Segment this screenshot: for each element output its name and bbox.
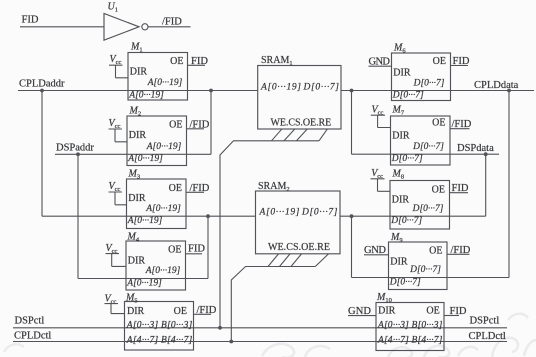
ground GND for M6	[369, 57, 392, 68]
wire SRAM1 control bus slash marks	[272, 129, 328, 141]
svg-text:DIR: DIR	[393, 67, 411, 78]
ground GND for M9	[364, 245, 389, 256]
svg-text:FID: FID	[22, 14, 39, 25]
svg-text:OE: OE	[429, 246, 442, 257]
wire M9 bus	[352, 277, 510, 279]
svg-text:OE: OE	[168, 245, 181, 256]
junction SRAM1 D / M7 rail	[350, 89, 354, 93]
transceiver M6	[392, 42, 451, 100]
transceiver M3	[127, 168, 187, 228]
svg-text:FID: FID	[188, 243, 205, 254]
wire SRAM2 control bus slash marks	[268, 254, 329, 267]
wire SRAM2 control bus to CPLDctl	[231, 267, 315, 342]
svg-text:DSPdata: DSPdata	[457, 143, 494, 154]
wire SRAM1 control bus to DSPctl	[220, 141, 319, 328]
wire M7 bus to DSPdata	[352, 153, 500, 155]
wire M8 riser to DSPdata	[485, 154, 487, 216]
transceiver M5 (control)	[125, 292, 194, 350]
svg-text:OE: OE	[432, 118, 445, 129]
wire SRAM1 D bus through M6 to CPLDdata	[341, 90, 534, 92]
svg-text:DIR: DIR	[130, 66, 148, 77]
svg-text:FID: FID	[453, 56, 470, 67]
svg-text:OE: OE	[174, 306, 187, 317]
svg-text:A[0···19]: A[0···19]	[126, 278, 162, 288]
ground GND for M10	[348, 306, 376, 317]
wire U1 output	[148, 26, 190, 28]
svg-text:CPLDaddr: CPLDaddr	[19, 79, 65, 90]
junction CPLDaddr rail	[40, 89, 44, 93]
svg-text:A[0···3] B[0···3]: A[0···3] B[0···3]	[126, 320, 193, 330]
pin OE of M6, net FID	[451, 56, 470, 67]
svg-text:D[0···7]: D[0···7]	[392, 91, 424, 101]
wire CPLDctl line through M5 and M10	[13, 341, 507, 343]
pin OE of M5, net /FID	[194, 305, 217, 316]
power Vcc for M5	[105, 293, 125, 313]
svg-text:A[0···19]: A[0···19]	[147, 78, 183, 88]
pin OE of M7, net /FID	[450, 119, 472, 130]
svg-text:WE.CS.OE.RE: WE.CS.OE.RE	[268, 242, 330, 253]
svg-text:/FID: /FID	[197, 305, 217, 316]
wire CPLDaddr bus through M1 to SRAM1 A	[18, 90, 258, 92]
svg-text:/FID: /FID	[190, 183, 210, 194]
svg-text:A[0···19]: A[0···19]	[260, 82, 301, 92]
wire SRAM2 D rail down to M9	[351, 216, 353, 277]
svg-text:SRAM2: SRAM2	[258, 181, 290, 193]
svg-text:D[0···7]: D[0···7]	[390, 216, 422, 226]
transceiver M8	[390, 168, 450, 229]
wire DSPaddr bus through M2	[55, 153, 211, 155]
SRAM2	[256, 181, 341, 254]
svg-text:DSPctl: DSPctl	[15, 315, 45, 326]
wire M3 bus to SRAM2 A	[42, 215, 256, 217]
pin OE of M4, net FID	[186, 243, 206, 254]
svg-text:CPLDctl: CPLDctl	[469, 331, 506, 342]
power Vcc for M2	[109, 118, 128, 142]
svg-text:DIR: DIR	[392, 194, 410, 205]
power Vcc for M4	[106, 243, 127, 266]
SRAM1	[258, 55, 341, 129]
svg-text:D[0···7]: D[0···7]	[391, 154, 423, 164]
svg-text:D[0···7]: D[0···7]	[412, 142, 444, 152]
svg-text:/FID: /FID	[452, 119, 472, 130]
svg-text:FID: FID	[452, 183, 469, 194]
svg-text:DIR: DIR	[128, 255, 146, 266]
svg-text:DIR: DIR	[390, 256, 408, 267]
wire CPLDaddr rail down to M3	[41, 91, 43, 217]
transceiver M10 (control)	[376, 292, 444, 351]
wire M4 bus	[78, 278, 208, 280]
svg-text:A[0···19]: A[0···19]	[128, 90, 164, 100]
pin OE of M2, net /FID	[187, 119, 210, 130]
svg-text:OE: OE	[433, 56, 446, 67]
junction DSPaddr rail	[76, 152, 80, 156]
pin OE of M9, net /FID	[447, 245, 471, 256]
pin OE of M3, net /FID	[186, 183, 210, 194]
svg-text:A[0···19]: A[0···19]	[145, 204, 181, 214]
svg-text:A[0···19]: A[0···19]	[146, 142, 182, 152]
transceiver M1	[128, 41, 188, 100]
svg-text:DIR: DIR	[128, 193, 146, 204]
junction CPLDdata rail	[507, 89, 511, 93]
svg-text:DIR: DIR	[378, 305, 396, 316]
power Vcc for M1	[109, 54, 128, 78]
svg-text:DIR: DIR	[127, 306, 145, 317]
svg-text:D[0···7]: D[0···7]	[303, 82, 340, 92]
junction SRAM2 D / M9 rail	[350, 214, 354, 218]
svg-text:OE: OE	[170, 56, 183, 67]
wire DSPctl line through M5 and M10	[13, 327, 507, 329]
svg-text:SRAM1: SRAM1	[261, 55, 293, 67]
svg-text:WE.CS.OE.RE: WE.CS.OE.RE	[271, 118, 332, 129]
svg-text:A[0···19]: A[0···19]	[127, 216, 163, 226]
svg-text:D[0···7]: D[0···7]	[412, 204, 444, 214]
svg-text:OE: OE	[169, 120, 182, 131]
svg-text:DSPaddr: DSPaddr	[56, 142, 94, 153]
svg-text:DIR: DIR	[392, 130, 410, 141]
svg-text:D[0···7]: D[0···7]	[409, 265, 441, 275]
inverter U1	[104, 2, 148, 41]
transceiver M9	[389, 232, 448, 290]
junction SRAM2 ctl on CPLDctl line	[229, 340, 233, 344]
svg-text:FID: FID	[450, 306, 467, 317]
pin OE of M10, net FID	[444, 306, 467, 317]
junction M4 riser on SRAM2 A bus	[206, 214, 210, 218]
svg-text:A[0···19]: A[0···19]	[145, 266, 181, 276]
svg-text:A[0···19]: A[0···19]	[127, 154, 163, 164]
svg-text:A[0···3] B[0···3]: A[0···3] B[0···3]	[377, 320, 443, 330]
junction M2 riser on SRAM1 A bus	[209, 89, 213, 93]
power Vcc for M7	[371, 104, 391, 127]
svg-text:A[4···7] B[4···7]: A[4···7] B[4···7]	[126, 335, 193, 345]
svg-text:OE: OE	[169, 183, 182, 194]
svg-text:/FID: /FID	[190, 119, 210, 130]
svg-text:D[0···7]: D[0···7]	[301, 208, 338, 218]
junction SRAM1 ctl on DSPctl line	[218, 326, 222, 330]
power Vcc for M3	[109, 181, 127, 205]
wire DSPaddr rail down to M4	[77, 154, 79, 278]
svg-text:DSPctl: DSPctl	[470, 316, 500, 327]
svg-text:DIR: DIR	[129, 130, 147, 141]
svg-text:FID: FID	[191, 56, 208, 67]
wire FID input to U1	[20, 26, 104, 28]
pin OE of M1, net FID	[188, 56, 209, 67]
transceiver M2	[127, 105, 187, 165]
svg-text:/FID: /FID	[451, 245, 471, 256]
transceiver M7	[391, 104, 451, 165]
svg-text:D[0···7]: D[0···7]	[389, 277, 421, 287]
svg-text:A[0···19]: A[0···19]	[259, 208, 300, 218]
wire CPLDdata rail down to M9	[508, 91, 510, 278]
svg-text:/FID: /FID	[162, 16, 182, 27]
wire SRAM1 D rail down to M7	[351, 91, 353, 155]
transceiver M4	[126, 231, 186, 290]
svg-text:D[0···7]: D[0···7]	[413, 78, 445, 88]
wire SRAM2 D bus through M8	[340, 215, 486, 217]
junction DSPdata rail	[484, 152, 488, 156]
svg-text:A[4···7] B[4···7]: A[4···7] B[4···7]	[377, 335, 443, 345]
power Vcc for M8	[371, 168, 391, 191]
wire M4 riser to SRAM2 A bus	[207, 216, 209, 278]
svg-text:OE: OE	[426, 305, 439, 316]
svg-text:CPLDdata: CPLDdata	[474, 80, 519, 91]
svg-text:OE: OE	[432, 185, 445, 196]
svg-text:CPLDctl: CPLDctl	[14, 331, 51, 342]
pin OE of M8, net FID	[450, 183, 469, 194]
faint scan watermark (decorative)	[4, 314, 536, 357]
wire M2 riser to SRAM1 A bus	[210, 91, 212, 155]
